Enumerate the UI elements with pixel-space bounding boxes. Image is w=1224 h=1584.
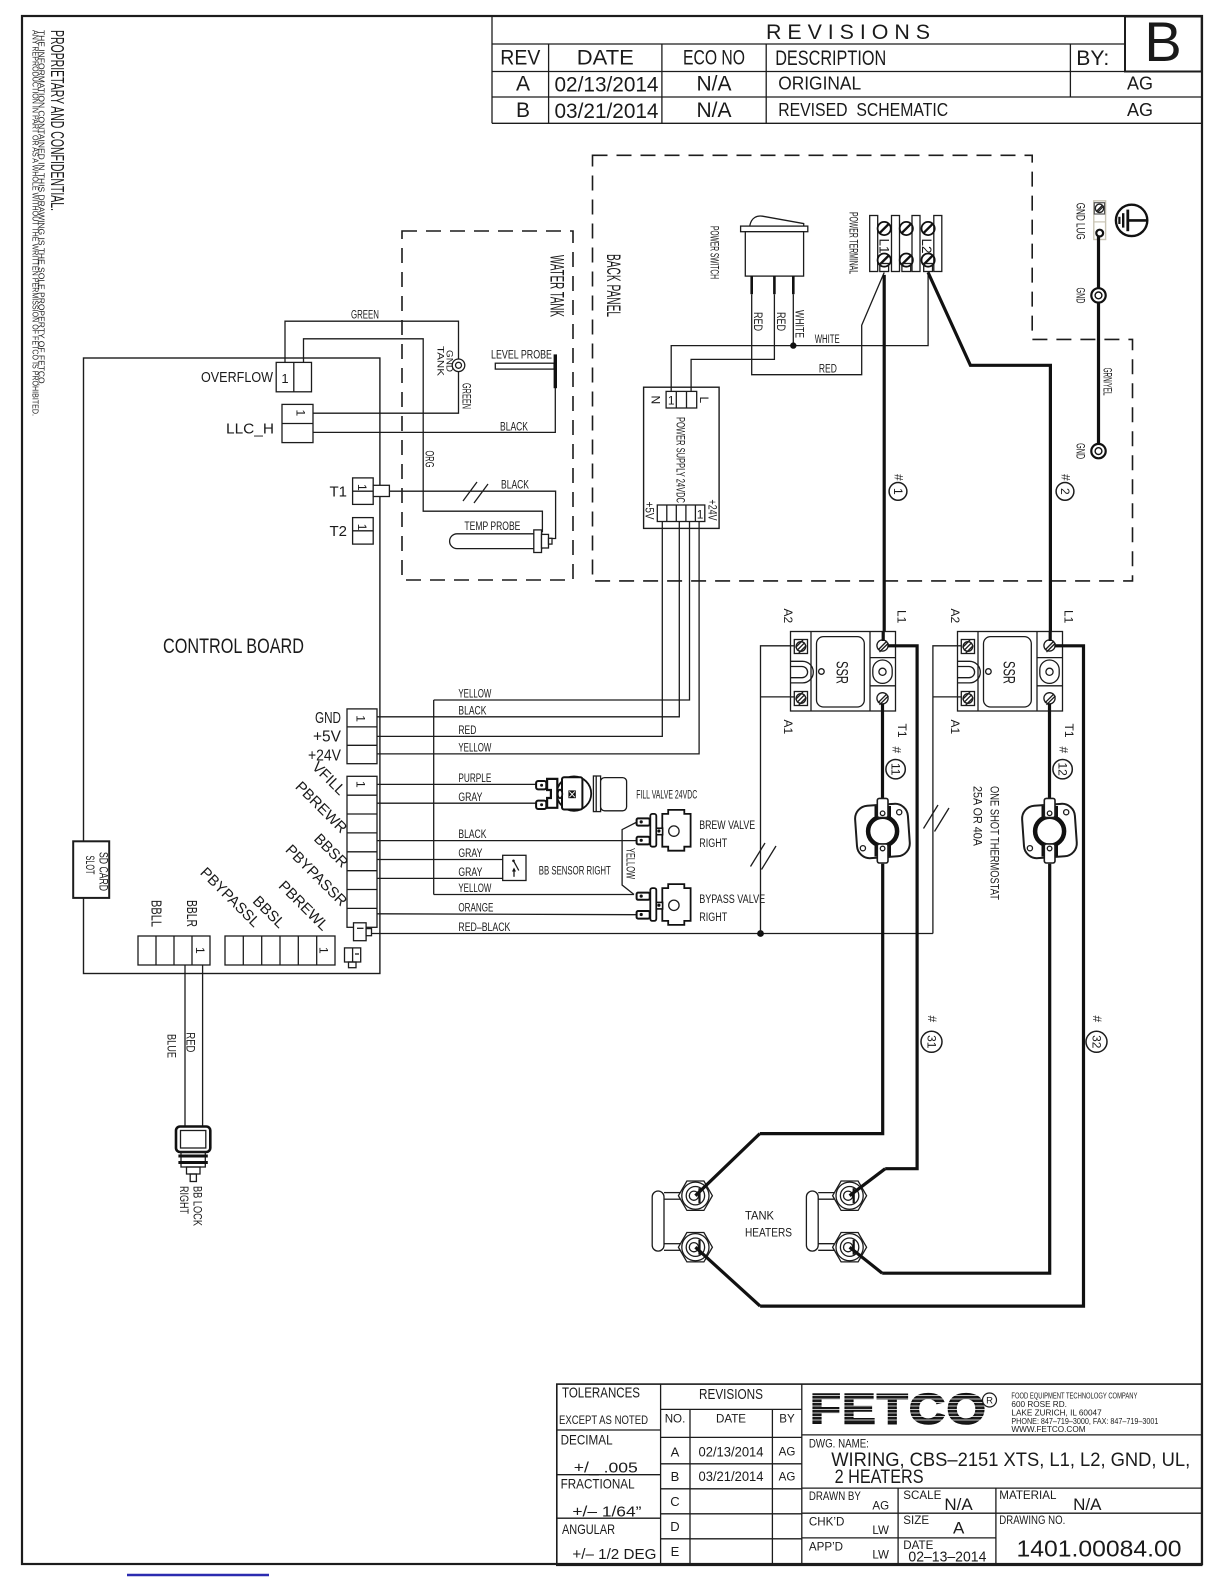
svg-text:BLACK: BLACK (501, 480, 529, 492)
wire red PS cell1 to +5V pin (377, 522, 663, 738)
svg-text:WHITE: WHITE (793, 310, 805, 338)
svg-text:YELLOW: YELLOW (624, 848, 636, 879)
svg-text:GRN/YEL: GRN/YEL (1101, 368, 1115, 396)
wire GRAY to bb sensor lower (377, 867, 503, 879)
svg-text:CONTROL BOARD: CONTROL BOARD (163, 635, 304, 658)
svg-text:GND: GND (1074, 288, 1088, 304)
wire #11 lead into heater1 top terminal (695, 1134, 759, 1196)
svg-text:AG: AG (872, 1500, 889, 1513)
svg-text:25A OR 40A: 25A OR 40A (971, 786, 985, 846)
svg-text:A: A (953, 1519, 965, 1538)
title revisions mini table text (665, 1387, 796, 1559)
svg-text:ECO NO: ECO NO (683, 47, 745, 70)
svg-text:ANGULAR: ANGULAR (562, 1521, 615, 1537)
dwg name block (809, 1438, 1190, 1489)
svg-text:#: # (890, 747, 904, 754)
wire #12 thermostat2 to heater2 (882, 864, 1049, 1273)
connector BBLL BBLR (138, 936, 210, 965)
label #11 (886, 747, 905, 779)
bb sensor right (503, 855, 526, 880)
svg-text:A2: A2 (948, 609, 962, 624)
connector GND +5V +24V (347, 709, 377, 764)
wire WHITE neutral (671, 272, 928, 392)
wire #31 lead into heater2 top terminal (850, 1169, 886, 1196)
svg-text:L1: L1 (877, 239, 892, 254)
svg-text:BB LOCK: BB LOCK (191, 1186, 205, 1226)
svg-text:1: 1 (354, 715, 368, 722)
wire #32 lead into heater1 bottom terminal (695, 1247, 760, 1306)
label WHITE pin3 (793, 310, 805, 338)
svg-text:GND: GND (315, 710, 341, 727)
label BREW VALVE RIGHT (699, 820, 755, 850)
svg-text:GRAY: GRAY (458, 867, 482, 879)
svg-text:T1: T1 (895, 724, 909, 738)
label #2 (1056, 474, 1074, 500)
label BYPASS VALVE RIGHT (699, 894, 765, 924)
svg-text:L: L (697, 397, 711, 404)
wire BLUE bb lock (165, 965, 186, 1127)
svg-text:B: B (516, 99, 530, 122)
spare plug connector (345, 948, 361, 968)
wire PURPLE vfill to fill valve (377, 773, 536, 785)
svg-text:YELLOW: YELLOW (458, 743, 491, 755)
wire #11 SSR1 T1 to thermostat1 (881, 711, 884, 799)
svg-text:SCALE: SCALE (903, 1489, 941, 1502)
svg-text:LLC_H: LLC_H (226, 421, 274, 438)
tank heater 1 (652, 1181, 712, 1262)
label RED pin2 (774, 312, 786, 331)
svg-text:#: # (925, 1016, 939, 1023)
label BBSR (310, 830, 351, 871)
svg-text:RED–BLACK: RED–BLACK (458, 922, 510, 934)
svg-text:12: 12 (1055, 763, 1069, 777)
svg-text:31: 31 (924, 1035, 938, 1049)
svg-text:GRAY: GRAY (458, 792, 482, 804)
svg-text:BBLL: BBLL (148, 900, 165, 927)
svg-text:DRAWING NO.: DRAWING NO. (999, 1514, 1065, 1527)
connector PBYPASSL BBSL PBREWL (225, 936, 335, 965)
svg-text:A: A (516, 73, 530, 96)
svg-text:2 HEATERS: 2 HEATERS (835, 1467, 924, 1488)
svg-text:#: # (1090, 1016, 1104, 1023)
label POWER SWITCH (708, 226, 722, 279)
svg-text:#: # (1059, 474, 1073, 481)
power terminal block (870, 216, 942, 272)
title block frame (557, 1384, 1202, 1565)
wire BLACK to brew valve (377, 829, 636, 841)
svg-text:R E V I S I O N S: R E V I S I O N S (766, 21, 930, 44)
label VFILL (308, 759, 348, 799)
svg-text:RED: RED (458, 725, 476, 737)
wire #11 thermostat1 to heater1 (760, 864, 883, 1134)
svg-text:REV: REV (500, 47, 540, 70)
svg-text:RED: RED (751, 312, 763, 331)
label FILL VALVE 24VDC (636, 789, 697, 801)
wire #32 SSR2 output to heater1 (760, 646, 1083, 1306)
svg-text:AG: AG (1127, 74, 1153, 94)
svg-text:CHK’D: CHK’D (809, 1516, 844, 1529)
svg-text:AG: AG (779, 1470, 796, 1483)
label TANK HEATERS (745, 1209, 792, 1240)
svg-text:WATER TANK: WATER TANK (546, 255, 567, 317)
svg-text:1: 1 (317, 947, 331, 954)
fill valve 24VDC solenoid (536, 776, 627, 812)
label PBYPASSR (282, 841, 351, 910)
svg-text:RED: RED (184, 1032, 196, 1052)
label L2 (919, 239, 934, 254)
wire switch pin2 red to power supply L (691, 294, 774, 391)
control board outline (84, 358, 380, 974)
svg-text:ORG: ORG (423, 451, 435, 468)
label BBSL (249, 893, 288, 932)
blue underline mark bottom left (127, 1574, 269, 1576)
svg-text:03/21/2014: 03/21/2014 (699, 1468, 764, 1484)
yellow bus vertical (433, 700, 435, 895)
back panel dashed enclosure (593, 155, 1133, 581)
svg-text:ANY REPRODUCTION IN PART OR AS: ANY REPRODUCTION IN PART OR AS A WHOLE W… (31, 30, 40, 416)
svg-text:APP’D: APP’D (809, 1541, 843, 1554)
tank heater 2 (806, 1181, 866, 1262)
label L1 (877, 239, 892, 254)
svg-text:RIGHT: RIGHT (177, 1186, 191, 1214)
svg-text:BY: BY (779, 1413, 795, 1426)
wire GRAY to bb sensor upper (377, 848, 503, 860)
wire SSR1 A1 (761, 696, 791, 698)
svg-text:B: B (1144, 10, 1181, 73)
label RED pin1 (751, 312, 763, 331)
svg-text:DATE: DATE (577, 47, 634, 70)
FETCO logo (810, 1386, 997, 1434)
svg-text:SSR: SSR (1000, 661, 1019, 684)
label OVERFLOW (201, 369, 274, 386)
label BB LOCK RIGHT (177, 1186, 205, 1226)
wire GRN/YEL gnd run (1097, 237, 1100, 444)
svg-text:N/A: N/A (1073, 1495, 1102, 1514)
brew valve right (637, 810, 691, 851)
connector VFILL stack (347, 776, 377, 927)
svg-text:GND: GND (443, 350, 454, 372)
label BBLL (148, 900, 165, 927)
label POWER TERMINAL (847, 212, 861, 274)
svg-text:FILL VALVE 24VDC: FILL VALVE 24VDC (636, 789, 697, 801)
svg-text:1: 1 (891, 488, 905, 495)
svg-text:GREEN: GREEN (351, 310, 379, 322)
svg-text:WHITE: WHITE (815, 334, 840, 346)
svg-text:+/– 1/2 DEG: +/– 1/2 DEG (572, 1547, 656, 1563)
level probe (491, 348, 555, 389)
svg-text:L2: L2 (919, 239, 934, 254)
svg-text:NO.: NO. (665, 1413, 686, 1426)
wire SSR2 A1 (933, 696, 958, 698)
svg-text:BLACK: BLACK (458, 829, 486, 841)
SSR2 pin labels A2 L1 A1 T1 (948, 609, 1076, 738)
svg-text:+24V: +24V (706, 500, 720, 521)
svg-text:E: E (671, 1544, 680, 1559)
sd card slot (73, 841, 110, 898)
svg-text:+/– 1/64”: +/– 1/64” (572, 1505, 641, 1521)
wire black PS cell2 to GND pin (377, 522, 680, 718)
svg-text:PROPRIETARY AND CONFIDENTIAL.: PROPRIETARY AND CONFIDENTIAL. (47, 30, 68, 211)
svg-text:1401.00084.00: 1401.00084.00 (1017, 1536, 1182, 1562)
svg-text:PURPLE: PURPLE (458, 773, 491, 785)
svg-text:TANK: TANK (745, 1209, 774, 1223)
svg-text:1: 1 (354, 781, 368, 788)
svg-text:POWER SWITCH: POWER SWITCH (708, 226, 722, 279)
svg-text:1: 1 (355, 484, 369, 491)
svg-text:YELLOW: YELLOW (458, 689, 491, 701)
label TANK GND (435, 346, 455, 377)
svg-text:N/A: N/A (944, 1495, 973, 1514)
label #32 (1086, 1016, 1107, 1053)
label GRN/YEL (1101, 368, 1115, 396)
svg-text:SLOT: SLOT (83, 856, 97, 875)
svg-text:BB SENSOR RIGHT: BB SENSOR RIGHT (539, 866, 611, 878)
wire RED bb lock (184, 965, 203, 1127)
svg-text:L1: L1 (895, 610, 909, 624)
wire ORG overflow pin2 to temp probe (304, 339, 543, 533)
svg-text:RIGHT: RIGHT (699, 838, 727, 850)
gnd ring terminal upper (1091, 288, 1105, 302)
SSR1 pin labels A2 L1 A1 T1 (781, 609, 909, 738)
svg-text:02/13/2014: 02/13/2014 (699, 1443, 764, 1459)
svg-text:TOLERANCES: TOLERANCES (562, 1385, 640, 1402)
gnd ring terminal lower (1091, 444, 1105, 458)
svg-text:ONE SHOT THERMOSTAT: ONE SHOT THERMOSTAT (988, 786, 1002, 901)
label GND (315, 710, 341, 727)
svg-text:T1: T1 (329, 484, 347, 501)
svg-text:1: 1 (697, 507, 704, 521)
wire yellow PS cell3 to bus (434, 522, 690, 701)
label LLC_H (226, 421, 274, 438)
svg-text:AG: AG (1127, 100, 1153, 120)
svg-text:DWG. NAME:: DWG. NAME: (809, 1438, 869, 1451)
wire ORANGE to bypass valve (377, 902, 636, 914)
SSR 1 (791, 632, 896, 712)
junction dot red-black SSR1 (757, 930, 764, 937)
svg-text:N/A: N/A (696, 73, 731, 96)
svg-text:OVERFLOW: OVERFLOW (201, 369, 274, 386)
svg-text:BBLR: BBLR (183, 900, 200, 927)
svg-text:ORANGE: ORANGE (458, 902, 493, 914)
svg-text:R: R (986, 1396, 993, 1407)
svg-text:L1: L1 (1062, 610, 1076, 624)
svg-text:C: C (670, 1494, 679, 1509)
label T2 (329, 523, 347, 540)
svg-text:AG: AG (779, 1446, 796, 1459)
svg-text:DATE: DATE (716, 1413, 746, 1426)
tank gnd ring terminal (452, 359, 465, 372)
svg-text:1: 1 (281, 371, 288, 386)
svg-text:REVISIONS: REVISIONS (699, 1387, 763, 1403)
wire #12 lead into heater2 bottom terminal (850, 1247, 883, 1273)
connector T2 (353, 518, 374, 545)
wire tank gnd to LLC_H pin1 (313, 372, 459, 414)
label #1 (889, 474, 907, 500)
svg-text:GND: GND (1074, 443, 1088, 459)
svg-text:T2: T2 (329, 523, 347, 540)
control board label (163, 635, 304, 658)
svg-text:POWER TERMINAL: POWER TERMINAL (847, 212, 861, 274)
svg-text:GREEN: GREEN (460, 383, 472, 409)
label +5V (313, 729, 341, 746)
bypass valve right (637, 884, 691, 925)
wire RED-BLACK to SSR A2 common (372, 922, 933, 934)
svg-text:11: 11 (888, 763, 902, 776)
svg-text:BACK PANEL: BACK PANEL (602, 254, 623, 317)
thermostat 2 one-shot (1021, 798, 1077, 863)
svg-text:DESCRIPTION: DESCRIPTION (775, 47, 886, 70)
SSR 2 (958, 632, 1063, 712)
svg-text:DECIMAL: DECIMAL (561, 1432, 613, 1448)
connector OVERFLOW (276, 362, 311, 391)
svg-text:SIZE: SIZE (903, 1514, 929, 1527)
revisions table top (492, 10, 1202, 123)
svg-text:02/13/2014: 02/13/2014 (555, 74, 659, 97)
wire #12 SSR2 T1 to thermostat2 (1048, 711, 1051, 799)
svg-text:BREW VALVE: BREW VALVE (699, 820, 755, 832)
svg-text:+5V: +5V (643, 502, 657, 520)
svg-text:D: D (670, 1519, 679, 1534)
svg-text:ORIGINAL: ORIGINAL (778, 74, 861, 94)
svg-text:A: A (671, 1444, 680, 1459)
svg-text:A2: A2 (781, 609, 795, 624)
label #31 (921, 1016, 942, 1053)
label BB SENSOR RIGHT (539, 866, 611, 878)
bb lock right switch (176, 1127, 210, 1182)
svg-text:WWW.FETCO.COM: WWW.FETCO.COM (1011, 1425, 1085, 1434)
svg-text:RED: RED (774, 312, 786, 331)
svg-text:BLACK: BLACK (458, 705, 486, 717)
svg-text:HEATERS: HEATERS (745, 1226, 792, 1240)
connector T1 (353, 478, 390, 505)
wire YELLOW bus to valves (434, 823, 636, 896)
svg-text:RIGHT: RIGHT (699, 912, 727, 924)
svg-text:LW: LW (872, 1549, 889, 1562)
svg-text:02–13–2014: 02–13–2014 (908, 1550, 986, 1566)
label GREEN vertical (460, 383, 472, 409)
label GND lower (1074, 443, 1088, 459)
svg-text:1: 1 (355, 524, 369, 531)
svg-text:POWER SUPPLY 24VDC: POWER SUPPLY 24VDC (674, 417, 688, 503)
company address block (1011, 1392, 1158, 1434)
svg-text:A1: A1 (781, 720, 795, 735)
power supply 24VDC U2 (643, 387, 720, 528)
svg-text:N/A: N/A (696, 99, 731, 122)
wire #1 L1 to SSR1 (883, 275, 886, 634)
svg-text:1: 1 (294, 410, 308, 417)
svg-text:1: 1 (193, 947, 207, 954)
label BBLR (183, 900, 200, 927)
thermostat 1 one-shot (854, 798, 910, 863)
label PBREWL (275, 878, 332, 935)
label +24V (308, 747, 341, 764)
svg-text:REVISED SCHEMATIC: REVISED SCHEMATIC (778, 100, 948, 120)
svg-text:#: # (892, 474, 906, 481)
tolerances column text (559, 1385, 656, 1564)
wire SSR2 A2 (924, 646, 958, 934)
svg-text:SD CARD: SD CARD (97, 852, 111, 891)
svg-text:FRACTIONAL: FRACTIONAL (561, 1476, 635, 1492)
svg-text:N: N (649, 396, 663, 405)
svg-text:LEVEL PROBE: LEVEL PROBE (491, 348, 552, 362)
label T1 (329, 484, 347, 501)
proprietary note vertical text (31, 30, 69, 416)
svg-text:TEMP PROBE: TEMP PROBE (464, 519, 520, 533)
svg-text:DRAWN BY: DRAWN BY (809, 1490, 861, 1503)
connector LLC_H (282, 404, 313, 442)
drawn by scale material rows (809, 1489, 1182, 1565)
wire #2 L2 to SSR2 (928, 273, 1050, 634)
svg-text:1: 1 (668, 394, 675, 408)
label PBYPASSL (197, 864, 264, 931)
svg-text:EXCEPT AS NOTED: EXCEPT AS NOTED (559, 1414, 648, 1427)
svg-text:BLACK: BLACK (500, 421, 528, 433)
wire BLACK T1 to temp probe (389, 480, 555, 539)
svg-text:+/_ .005: +/_ .005 (574, 1461, 638, 1477)
svg-text:BLUE: BLUE (165, 1034, 177, 1058)
svg-text:YELLOW: YELLOW (458, 883, 491, 895)
label BACK PANEL (602, 254, 623, 317)
svg-text:A1: A1 (948, 720, 962, 735)
wire #31 SSR1 output to heater2 (885, 646, 917, 1169)
label #12 (1053, 747, 1072, 779)
svg-text:GND LUG: GND LUG (1074, 203, 1088, 240)
svg-text:BYPASS VALVE: BYPASS VALVE (699, 894, 765, 906)
svg-text:SSR: SSR (833, 661, 852, 684)
svg-text:2: 2 (1058, 488, 1072, 495)
svg-text:GRAY: GRAY (458, 848, 482, 860)
wire switch pin1 red to terminal L1 (752, 273, 885, 376)
wire GRAY to fill valve (377, 792, 536, 804)
gnd lug (1094, 201, 1106, 240)
svg-text:32: 32 (1089, 1035, 1103, 1049)
earth ground symbol (1116, 205, 1147, 236)
label GND upper (1074, 288, 1088, 304)
power switch S1 (741, 216, 808, 294)
label ONE SHOT THERMOSTAT (971, 786, 1002, 901)
svg-text:03/21/2014: 03/21/2014 (555, 100, 659, 123)
wire yellow PS cell5 to +24V pin (377, 522, 699, 755)
svg-text:BY:: BY: (1076, 47, 1109, 70)
svg-text:LW: LW (872, 1524, 889, 1537)
svg-text:+5V: +5V (313, 729, 341, 746)
wire BLACK level probe to LLC_H pin2 (313, 388, 555, 433)
label WATER TANK (546, 255, 567, 317)
wire SSR1 A2 (751, 646, 791, 934)
svg-text:B: B (671, 1469, 680, 1484)
label PBREWR (292, 778, 351, 837)
svg-text:RED: RED (819, 363, 837, 375)
wire GREEN overflow to tank gnd (285, 310, 459, 363)
water tank dashed enclosure (402, 231, 573, 580)
label GND LUG (1074, 203, 1088, 240)
svg-text:T1: T1 (1062, 724, 1076, 738)
svg-text:#: # (1057, 747, 1071, 754)
svg-text:MATERIAL: MATERIAL (999, 1489, 1057, 1502)
connector red-black output (354, 923, 372, 941)
temp probe (450, 519, 552, 553)
